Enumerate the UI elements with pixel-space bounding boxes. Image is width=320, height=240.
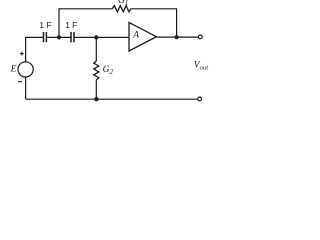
resistor G2 — [94, 61, 114, 80]
svg-text:G2: G2 — [103, 65, 114, 76]
wire feedback right vertical — [176, 8, 178, 37]
wire G2 upper — [95, 37, 97, 61]
wire output — [156, 36, 198, 38]
node between capacitors — [57, 35, 61, 39]
wire bottom rail — [26, 98, 198, 100]
capacitor C2 value 1 F — [65, 20, 77, 42]
wire left rail lower — [25, 77, 27, 99]
label Vout — [194, 61, 208, 72]
capacitor C1 value 1 F — [39, 20, 51, 42]
source E — [10, 52, 34, 82]
node output junction — [175, 35, 179, 39]
wire main input segment 1 — [26, 36, 44, 38]
op-amp U1 A — [129, 22, 156, 51]
svg-text:1 F: 1 F — [39, 20, 51, 30]
terminal output top — [198, 35, 202, 39]
wire left rail upper — [25, 37, 27, 62]
svg-text:1 F: 1 F — [65, 20, 77, 30]
terminal output bottom — [198, 97, 202, 101]
resistor G1 — [112, 0, 131, 12]
node bottom junction — [94, 97, 98, 101]
wire feedback left vertical — [58, 8, 60, 37]
svg-text:G1: G1 — [118, 0, 128, 7]
node G2 tap — [94, 35, 98, 39]
wire main input segment 3 — [74, 36, 129, 38]
svg-text:Vout: Vout — [194, 61, 208, 72]
wire top rail left segment — [59, 8, 112, 10]
wire G2 lower — [95, 80, 97, 99]
svg-text:A: A — [132, 31, 139, 41]
svg-text:E: E — [10, 65, 17, 75]
wire top rail right segment — [131, 8, 177, 10]
wire main input segment 2 — [47, 36, 71, 38]
